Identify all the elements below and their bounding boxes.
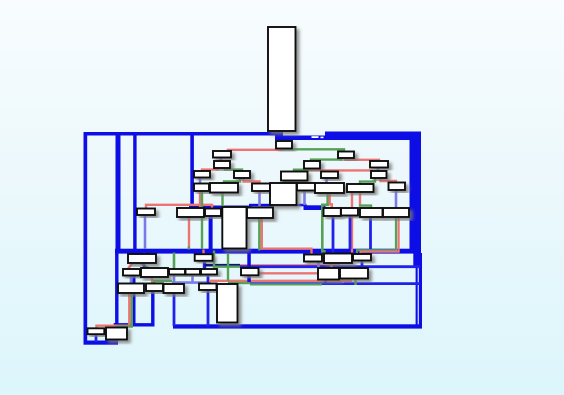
- module BB1: [304, 255, 322, 262]
- wire green B2 drop: [201, 191, 203, 249]
- wire red T5 to X9: [381, 178, 397, 183]
- module U-C: [194, 171, 210, 178]
- wire blue BB3 to CC2: [361, 261, 364, 269]
- wire violet U-A to U-B: [220, 157, 223, 162]
- wire blue G1 drop: [332, 216, 335, 254]
- wire mid bus jog: [249, 204, 307, 207]
- wire mid bus left: [189, 206, 252, 210]
- wire red U-B to U-C: [202, 168, 218, 172]
- module M1: [128, 254, 156, 263]
- wire green stub to BB2: [323, 250, 325, 254]
- module L: [297, 183, 315, 191]
- wire low bus: [115, 249, 416, 254]
- wire x134 drop to bottom link: [133, 276, 136, 325]
- module W1: [118, 284, 144, 294]
- module N2: [141, 268, 168, 277]
- module TB tall block: [217, 284, 238, 323]
- wire blue CC1 drop: [324, 280, 327, 285]
- wire red net y281: [209, 280, 352, 282]
- wire green T1 to U-I: [311, 158, 341, 162]
- wire red B2 drop: [188, 217, 190, 249]
- module S1: [88, 328, 105, 334]
- wire violet BB1 to CC1: [317, 262, 320, 269]
- wire vertical x135: [133, 135, 136, 249]
- module S2: [106, 328, 127, 340]
- wire blue G3 drop: [369, 217, 372, 255]
- wire red U-J to L: [296, 180, 307, 182]
- module G4: [383, 208, 409, 217]
- wire blue bus to N2: [143, 253, 146, 269]
- wire red bus-row link: [228, 150, 283, 151]
- wire violet T3 to T5: [377, 168, 380, 172]
- wire red X8 drop short: [359, 192, 361, 207]
- wire green U-J to BB: [283, 180, 296, 182]
- wire red DD to CC1: [259, 272, 319, 274]
- wire bottom long horizontal: [173, 324, 422, 328]
- wire blue S1 drop: [95, 335, 98, 342]
- module B3: [205, 209, 221, 217]
- module TA tall block: [222, 207, 246, 249]
- wire green X7 drop: [322, 193, 327, 253]
- wire thick vertical x193: [190, 135, 194, 208]
- module N5: [201, 269, 217, 275]
- wire red CC2 stub: [342, 279, 344, 284]
- wire red M2 feed: [202, 250, 204, 255]
- wire red X8 drop: [351, 192, 353, 254]
- wire violet U-G drop: [258, 191, 261, 208]
- module U-J: [281, 172, 308, 181]
- module BB2: [324, 254, 352, 264]
- wire violet U-K to X7: [325, 178, 328, 184]
- wire green long link to T1: [283, 149, 344, 152]
- wire red N2 to W2: [151, 277, 153, 284]
- wire red M1 to N1: [128, 263, 133, 270]
- module BB3: [353, 254, 371, 261]
- module G2: [341, 208, 358, 216]
- wire green bus to N3: [173, 253, 176, 270]
- module B1: [137, 209, 155, 216]
- module N3: [169, 269, 185, 275]
- wire mid bus right: [304, 205, 326, 210]
- wire green U-F to tall box: [221, 193, 223, 207]
- wire green U-B to U-D: [225, 168, 242, 172]
- wire bottom-left corner link: [115, 252, 153, 329]
- wire green CC2 drop: [354, 279, 356, 286]
- module N4: [186, 269, 201, 275]
- module B2: [177, 208, 204, 217]
- wire top bus right segment: [325, 132, 421, 141]
- wire violet U-C to U-E: [199, 177, 202, 184]
- wire red X7 to G1: [330, 193, 332, 209]
- wire red stub to U-K: [325, 170, 327, 172]
- module U-K: [321, 172, 338, 179]
- wire right double vertical B: [419, 266, 422, 327]
- wire green W1 to S2: [117, 293, 132, 329]
- module X9: [389, 183, 406, 191]
- module CC1: [318, 268, 339, 280]
- module X8: [347, 184, 374, 192]
- module BB big block: [270, 183, 297, 205]
- wire top bus middle segment: [275, 136, 326, 141]
- module CC2: [340, 268, 368, 279]
- module N1: [123, 269, 140, 276]
- module U-G: [252, 184, 270, 192]
- module G3: [360, 208, 383, 217]
- wire thick blue B3 drop: [209, 216, 213, 250]
- wire violet N3 junction: [173, 275, 176, 283]
- module DD: [241, 268, 259, 275]
- module U-F: [210, 183, 238, 193]
- wire blue net y283: [250, 282, 420, 285]
- wire red W1 to S1: [97, 293, 130, 329]
- wire blue W3 drop: [173, 293, 176, 326]
- wire right double vertical A: [416, 266, 418, 327]
- wire green T5 to X8: [360, 178, 375, 185]
- wire red BB2 to CC1: [330, 263, 332, 269]
- wire violet N4 junction: [191, 275, 194, 283]
- module H below bus: [276, 141, 292, 149]
- wire green net y283 segment: [228, 282, 250, 284]
- wire right border bus: [410, 132, 423, 269]
- module W2: [146, 284, 163, 292]
- wire red U-D to U-G: [244, 178, 260, 184]
- wire red net y265: [240, 264, 340, 266]
- module W3: [164, 284, 185, 293]
- module W4: [199, 284, 217, 291]
- wire navy M2 corner east: [205, 264, 241, 267]
- wire green X8 to G3 link: [359, 206, 371, 209]
- wire violet junction horizontal: [172, 283, 210, 285]
- node notch in top bus: [312, 136, 324, 138]
- wire green bus drop x228: [227, 253, 229, 281]
- module G1: [324, 208, 341, 216]
- wire top bus left segment: [84, 132, 284, 136]
- wire green net y284: [250, 283, 322, 285]
- wire green U-I to U-J: [294, 169, 311, 172]
- wire red T1 to T3: [346, 158, 380, 162]
- module U-A: [213, 151, 231, 158]
- wire green to W2: [154, 281, 172, 284]
- module U-E: [194, 184, 209, 192]
- module T5: [371, 171, 387, 178]
- wire blue N5 to W4: [207, 275, 210, 284]
- module M2: [195, 254, 213, 261]
- wire green M1 to N2: [140, 263, 150, 269]
- wire blue M2 to N5: [203, 261, 206, 270]
- wire violet X9 to G4: [395, 190, 398, 209]
- wire violet B1 drop: [144, 215, 147, 249]
- module T1: [338, 152, 354, 159]
- module B5: [247, 208, 273, 219]
- wire red U-E drop: [199, 191, 201, 209]
- wire blue W4 drop: [207, 290, 210, 326]
- module U-D: [234, 171, 250, 178]
- wire green M2 feed: [188, 247, 190, 250]
- wire green U-D to U-F: [224, 178, 240, 184]
- wire red B5 to BB1: [262, 218, 312, 255]
- wire thick blue bus drop x249: [247, 252, 251, 282]
- wire green B5 drop: [258, 218, 260, 251]
- wire green N5 bus link: [214, 251, 249, 267]
- wire red box-row top link: [146, 205, 212, 209]
- wire thick vertical x117: [116, 135, 121, 252]
- wire green G4 drop: [357, 218, 396, 255]
- wire violet N1 to W1: [130, 276, 133, 285]
- module U-I: [304, 161, 320, 169]
- wire red I row link: [310, 169, 372, 173]
- wire left border bus: [84, 132, 88, 345]
- module X7: [315, 183, 344, 193]
- wire blue G2 drop: [349, 216, 352, 250]
- wire bottom-left corner bus: [84, 341, 119, 345]
- wire blue net y266: [240, 265, 420, 268]
- module T3: [370, 161, 388, 168]
- wire red G4 drop: [361, 218, 399, 255]
- wire violet L drop: [303, 191, 306, 206]
- module top tall block: [268, 27, 296, 131]
- module U-B: [214, 161, 230, 168]
